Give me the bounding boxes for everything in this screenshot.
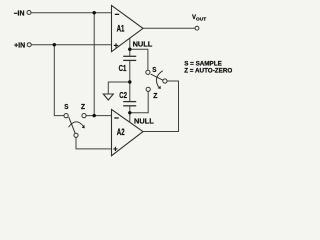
switch SW1 common contact [74,133,78,137]
wire C2 bottom to A2 null pin [129,106,131,122]
svg-text:NULL: NULL [134,117,154,126]
node junction ground tap [128,80,131,83]
wire A1 output to VOUT [143,27,195,29]
wire left switch common to A2 plus input [76,138,112,149]
switch SW2 S contact [146,70,150,74]
svg-text:A2: A2 [117,127,125,137]
ground [103,94,113,100]
wire right switch common to A2 output feedback loop [143,81,179,132]
switch SW2 blade [151,74,163,80]
wire A2 null to right switch Z contact [130,91,148,112]
capacitor C1 [123,56,136,60]
capacitor C2 [123,102,136,106]
svg-text:C2: C2 [119,90,127,100]
svg-text:Z: Z [81,104,86,111]
switch SW1 blade [69,117,76,133]
wire -IN vertical branch down to A2 minus [93,13,95,116]
svg-text:+IN: +IN [14,42,25,49]
svg-text:–IN: –IN [14,10,25,17]
wire C1 bottom to C2 top through ground node [129,60,131,101]
svg-text:Z = AUTO-ZERO: Z = AUTO-ZERO [184,68,232,75]
svg-text:C1: C1 [119,63,127,73]
node junction A2 minus input [93,114,96,117]
switch SW2 motion arc arrow [156,71,162,87]
switch SW1 Z contact [82,114,86,118]
svg-text:S = SAMPLE: S = SAMPLE [184,60,222,67]
node junction A1 null [128,48,131,51]
op-amp A2 [112,109,144,155]
wire +IN vertical branch to left switch S contact [54,45,64,116]
svg-text:Z: Z [153,93,158,100]
switch SW1 motion arc arrow [69,122,84,127]
wire ground branch [108,82,130,94]
svg-text:NULL: NULL [133,40,153,49]
node junction A1 minus branch [93,11,96,14]
wire A1 null pin down to C1 [129,38,131,56]
switch SW2 common contact [163,79,167,83]
wire A1 null to right switch S contact [130,49,148,70]
svg-text:S: S [152,67,156,74]
wire +IN to A1 plus input [31,44,112,46]
terminal +IN [27,43,31,47]
node junction A2 null [128,111,131,114]
svg-text:A1: A1 [117,24,125,34]
switch SW2 Z contact [146,87,150,91]
node junction A1 plus branch [53,43,56,46]
wire left switch Z contact to A2 minus input [86,115,111,117]
op-amp A1 [112,5,144,51]
svg-text:S: S [64,104,68,111]
terminal VOUT [195,26,199,30]
switch SW1 S contact [64,114,68,118]
wire -IN to A1 minus input [31,12,112,14]
terminal -IN [27,11,31,15]
